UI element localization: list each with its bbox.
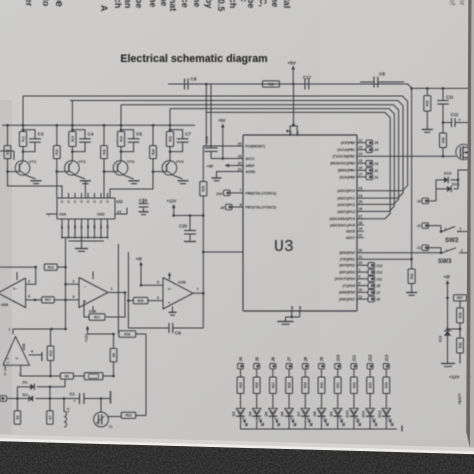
svg-text:PB7(XTAL2/TOSC2): PB7(XTAL2/TOSC2): [246, 205, 277, 209]
svg-text:(INT1)PD3: (INT1)PD3: [339, 271, 355, 275]
svg-text:VCC: VCC: [290, 131, 292, 136]
svg-text:18: 18: [238, 154, 242, 158]
switch SW3: [440, 248, 442, 253]
wire D7 to bus: [304, 416, 306, 429]
resistor R37: [454, 295, 467, 301]
svg-text:(AIN1)PD7: (AIN1)PD7: [339, 298, 355, 302]
svg-text:R25: R25: [239, 382, 243, 388]
svg-text:J11: J11: [352, 354, 357, 361]
svg-text:D15: D15: [452, 182, 460, 187]
svg-text:ADC6: ADC6: [346, 230, 355, 234]
wire J10 to resistor: [337, 369, 339, 377]
svg-text:he: he: [148, 0, 158, 7]
svg-text:R14: R14: [48, 265, 54, 269]
svg-text:AREF: AREF: [246, 164, 255, 168]
wire drop to rail ch2: [71, 101, 73, 126]
svg-text:C9: C9: [191, 77, 197, 82]
resistor R12 base: [7, 125, 9, 145]
connector J13: [357, 264, 368, 266]
paper bottom edge highlight: [0, 435, 474, 453]
resistor R29: [302, 377, 309, 394]
connector J4: [238, 364, 244, 369]
capacitor C7: [170, 130, 183, 139]
capacitor C3: [23, 130, 35, 139]
wire reset to rail: [205, 84, 207, 146]
channel supply rail: [2, 124, 195, 126]
svg-text:3: 3: [28, 295, 30, 299]
svg-text:+: +: [168, 301, 170, 305]
MCU U3 box: [243, 135, 357, 311]
svg-text:or: or: [458, 0, 467, 6]
emitter ground ch3: [125, 176, 134, 179]
resistor R7: [47, 411, 53, 425]
LED D6: [285, 409, 293, 416]
svg-text:he: he: [53, 0, 65, 7]
svg-text:J7: J7: [376, 291, 380, 295]
resistor R33: [367, 377, 374, 394]
svg-text:14: 14: [359, 152, 363, 156]
svg-text:AVCC: AVCC: [246, 157, 256, 161]
inductor L1: [63, 399, 65, 412]
svg-text:J9: J9: [220, 205, 225, 210]
wire R16 down to R13: [145, 334, 147, 416]
svg-text:3: 3: [72, 295, 74, 299]
LED D12: [382, 409, 390, 416]
svg-text:+5f: +5f: [444, 275, 451, 280]
svg-text:R19: R19: [119, 136, 123, 142]
svg-text:T1: T1: [109, 425, 113, 429]
connector J6: [270, 364, 276, 369]
svg-text:R2: R2: [65, 374, 69, 378]
svg-text:J1: J1: [417, 246, 421, 250]
resistor R39: [459, 301, 461, 308]
svg-text:C7: C7: [185, 132, 191, 137]
svg-text:6: 6: [157, 296, 159, 300]
svg-text:3Y: 3Y: [80, 225, 84, 228]
svg-text:ce: ce: [180, 0, 190, 8]
wire drop to rail ch1: [22, 96, 24, 125]
svg-text:R15: R15: [71, 136, 75, 142]
ground under R22: [406, 292, 417, 294]
resistor R25: [200, 182, 207, 197]
svg-text:7: 7: [197, 288, 199, 292]
wire drop to rail ch4: [169, 109, 171, 126]
svg-text:22: 22: [359, 234, 363, 238]
wire node to U3 edge: [203, 251, 243, 253]
svg-text:D2: D2: [23, 392, 29, 397]
svg-text:4: 4: [31, 349, 33, 353]
svg-text:3Z: 3Z: [86, 225, 90, 228]
svg-text:VT4: VT4: [176, 159, 184, 164]
connector J5: [254, 364, 260, 369]
svg-text:R24: R24: [151, 149, 155, 155]
resistor R16: [119, 331, 136, 337]
svg-text:2Z: 2Z: [73, 225, 77, 228]
svg-text:(INT0)PD2: (INT0)PD2: [339, 264, 355, 268]
feedback loop wire: [106, 293, 125, 318]
surface beyond right paper edge: [470, 0, 474, 452]
svg-text:(OC1A)PB1: (OC1A)PB1: [337, 148, 355, 152]
svg-text:16: 16: [359, 166, 363, 170]
svg-text:1: 1: [111, 287, 113, 291]
svg-text:+5V: +5V: [288, 61, 297, 66]
paper shadow left edge: [0, 100, 12, 440]
MOSFET Q1: [456, 144, 471, 159]
svg-text:2Y: 2Y: [60, 225, 64, 228]
transistor VT2: [65, 161, 80, 176]
svg-text:5: 5: [157, 280, 159, 284]
svg-text:C4: C4: [88, 132, 94, 137]
resistor R32: [351, 377, 358, 394]
svg-text:1Y: 1Y: [99, 225, 103, 228]
wire D8 to bus: [321, 416, 323, 429]
resistor R27: [270, 377, 277, 394]
wire J12 to resistor: [369, 369, 371, 377]
svg-text:J3: J3: [417, 199, 421, 203]
svg-text:VT3: VT3: [127, 159, 135, 164]
svg-text:C11: C11: [446, 95, 454, 100]
svg-text:J8: J8: [376, 284, 380, 288]
svg-text:be: be: [246, 0, 256, 8]
svg-text:+12V: +12V: [85, 333, 89, 342]
LED D10: [350, 409, 358, 416]
svg-text:J10: J10: [335, 354, 340, 362]
svg-text:V−: V−: [168, 287, 172, 291]
wire +12V to R16 row: [88, 333, 114, 335]
svg-text:U2: U2: [117, 199, 123, 205]
signal bus line channel 3: [121, 105, 399, 205]
svg-text:(MISO)PB4: (MISO)PB4: [338, 169, 355, 173]
svg-text:J6: J6: [271, 356, 276, 361]
resistor R30: [318, 377, 325, 394]
LED D9: [334, 409, 342, 416]
wire AVCC: [211, 158, 243, 160]
MOSFET drain wire: [469, 88, 471, 147]
svg-text:+: +: [7, 361, 9, 365]
svg-text:7: 7: [9, 328, 11, 332]
svg-text:VT1: VT1: [29, 159, 37, 164]
LED D11: [366, 409, 374, 416]
svg-text:D3: D3: [232, 412, 236, 417]
wire to U1B pin5: [141, 284, 163, 286]
vertical net wire mid-left B: [127, 252, 129, 328]
svg-text:3C: 3C: [99, 200, 103, 203]
resistor R20: [133, 297, 148, 303]
resistor R2: [60, 373, 73, 379]
svg-text:J1: J1: [374, 175, 378, 179]
wire left edge input: [0, 150, 14, 152]
svg-text:ne: ne: [159, 0, 169, 6]
svg-text:J4: J4: [238, 356, 243, 361]
connector J7: [357, 291, 368, 293]
svg-text:R16: R16: [124, 332, 130, 336]
switch SW2: [440, 226, 442, 232]
svg-text:15: 15: [359, 159, 363, 163]
svg-text:+5V: +5V: [218, 118, 226, 123]
signal bus line channel 1: [23, 96, 408, 191]
transistor VT3: [113, 161, 128, 176]
svg-text:V−: V−: [16, 357, 20, 361]
connector J9: [319, 364, 325, 369]
svg-text:D5: D5: [265, 412, 269, 417]
signal bus line 5: [206, 112, 390, 218]
svg-text:5: 5: [4, 373, 6, 377]
svg-text:J10: J10: [216, 191, 223, 196]
svg-text:J7: J7: [287, 356, 292, 361]
svg-text:D7: D7: [297, 412, 301, 417]
resistor R13: [108, 416, 122, 418]
resistor R19 collector: [120, 125, 122, 131]
svg-text:C1: C1: [70, 391, 76, 396]
svg-text:he: he: [270, 0, 280, 7]
wire J7 to resistor: [288, 369, 290, 377]
connector J13: [383, 364, 389, 369]
svg-text:er: er: [24, 0, 34, 7]
resistor R22: [411, 259, 413, 269]
svg-text:C6: C6: [175, 331, 181, 336]
connector J1 right of U3: [366, 174, 373, 180]
svg-text:R29: R29: [304, 382, 308, 388]
svg-text:PC6(RESET): PC6(RESET): [246, 144, 266, 148]
svg-text:21: 21: [238, 167, 242, 171]
svg-text:J13: J13: [376, 264, 382, 268]
svg-text:R16: R16: [55, 149, 59, 155]
svg-text:D13: D13: [439, 336, 443, 342]
svg-text:J6: J6: [376, 298, 380, 302]
resistor R17: [42, 297, 55, 303]
wire VT2 base to U2: [56, 172, 58, 198]
capacitor C10: [210, 84, 212, 148]
svg-text:SW3: SW3: [438, 258, 452, 265]
svg-text:(SCK)PB5: (SCK)PB5: [339, 175, 355, 179]
svg-text:D11: D11: [362, 411, 366, 418]
svg-text:he: he: [192, 0, 202, 7]
svg-text:R33: R33: [369, 382, 373, 388]
svg-text:R38: R38: [458, 342, 462, 348]
svg-text:C17: C17: [303, 75, 312, 80]
dark table surface bottom: [0, 441, 474, 474]
svg-text:13: 13: [359, 146, 363, 150]
resistor R26: [253, 377, 260, 394]
svg-text:of: of: [448, 0, 457, 6]
svg-text:C8: C8: [379, 72, 385, 77]
svg-text:(ADC4/SDA)PC4: (ADC4/SDA)PC4: [330, 217, 356, 221]
svg-text:R20: R20: [102, 149, 106, 155]
wire PB2 long: [366, 155, 443, 157]
emitter ground ch4: [174, 176, 183, 179]
svg-text:tal: tal: [282, 0, 292, 8]
svg-text:19: 19: [359, 227, 363, 231]
svg-text:D9: D9: [329, 412, 333, 417]
svg-text:ch: ch: [113, 0, 123, 8]
emitter ground ch1: [27, 176, 36, 179]
svg-text:R12: R12: [6, 149, 10, 155]
svg-text:R26: R26: [268, 82, 274, 86]
+5V rail wire: [168, 84, 412, 259]
connector J5: [366, 140, 373, 146]
svg-text:D10: D10: [346, 411, 350, 418]
svg-text:(ADC3)PC3: (ADC3)PC3: [337, 210, 355, 214]
svg-text:R20: R20: [138, 299, 144, 303]
capacitor C6: [202, 293, 204, 328]
svg-text:C10: C10: [205, 137, 209, 144]
U3 VCC bracket: [293, 84, 295, 125]
svg-text:R28: R28: [288, 382, 292, 388]
svg-text:7: 7: [240, 189, 242, 193]
svg-text:R22: R22: [410, 273, 414, 279]
wire J9 to resistor: [321, 369, 323, 377]
svg-text:D8: D8: [313, 412, 317, 417]
svg-text:+5F: +5F: [207, 163, 215, 168]
connector J12: [367, 364, 373, 369]
svg-text:0.5: 0.5: [216, 0, 226, 11]
wire R25 node down: [202, 216, 204, 253]
svg-text:11: 11: [359, 295, 363, 299]
svg-text:Electrical schematic diagram: Electrical schematic diagram: [120, 53, 267, 65]
svg-text:be: be: [134, 0, 144, 8]
connector J7: [286, 364, 292, 369]
connector J12: [357, 271, 368, 273]
resistor R9: [110, 348, 117, 362]
svg-text:J5: J5: [254, 356, 259, 361]
wire D12 to bus: [385, 416, 387, 429]
wire VT2 emitter branch: [84, 181, 86, 198]
svg-text:30: 30: [359, 249, 363, 253]
capacitor C8: [373, 77, 375, 88]
svg-text:R30: R30: [320, 382, 324, 388]
svg-text:R23: R23: [168, 136, 172, 142]
svg-text:2: 2: [28, 279, 30, 283]
svg-text:R10: R10: [49, 350, 53, 356]
svg-text:L1: L1: [66, 408, 70, 412]
vertical net wire: [65, 238, 67, 268]
svg-text:R31: R31: [336, 382, 340, 388]
svg-text:8: 8: [240, 203, 242, 207]
connector J10: [335, 364, 341, 369]
svg-text:J2: J2: [374, 169, 378, 173]
rail branch to right section: [412, 87, 468, 89]
svg-text:17: 17: [359, 173, 363, 177]
wire D10 to bus: [353, 416, 355, 429]
resistor R26: [263, 81, 280, 87]
ground under R35: [422, 129, 433, 131]
svg-text:A: A: [99, 5, 109, 12]
svg-text:+: +: [74, 399, 76, 403]
svg-text:D1: D1: [23, 379, 29, 384]
wire J11 to resistor: [353, 369, 355, 377]
wire D9 to bus: [337, 416, 339, 429]
resistor R31: [334, 377, 341, 394]
svg-text:20: 20: [238, 161, 242, 165]
resistor R16 base: [56, 125, 58, 145]
resistor R20 base: [103, 125, 105, 145]
resistor R10: [50, 329, 52, 346]
svg-text:R39: R39: [458, 312, 462, 318]
capacitor C17: [304, 79, 306, 90]
svg-text:1: 1: [359, 268, 361, 272]
resistor R15 collector: [71, 125, 73, 131]
svg-text:(XCK/T0)PD4: (XCK/T0)PD4: [335, 277, 355, 281]
U2 ground: [81, 238, 83, 249]
svg-text:31: 31: [359, 255, 363, 259]
resistor R23 collector: [169, 125, 171, 131]
LED D8: [317, 409, 325, 416]
svg-text:29: 29: [238, 142, 242, 146]
terminal bar: [110, 391, 112, 404]
wire drop to rail ch3: [120, 105, 122, 126]
svg-text:C12: C12: [451, 112, 459, 117]
connector J6: [357, 298, 368, 300]
resistor R35: [424, 96, 431, 112]
svg-text:AZ: AZ: [106, 225, 110, 229]
svg-text:J13: J13: [384, 354, 389, 362]
svg-text:1C: 1C: [73, 200, 77, 203]
svg-text:25: 25: [359, 200, 363, 204]
svg-text:C5: C5: [136, 132, 142, 137]
transistor VT1: [15, 161, 30, 176]
svg-text:SW2: SW2: [445, 237, 459, 244]
emitter ground ch2: [76, 176, 85, 179]
wire D11 to bus: [369, 416, 371, 429]
resistor R25: [237, 377, 244, 394]
svg-text:(T1/OC1B)PB2: (T1/OC1B)PB2: [332, 155, 355, 159]
dark surface speckle texture: [0, 441, 474, 474]
microphone T1: [94, 412, 109, 427]
wire J4 to resistor: [240, 369, 242, 377]
resistor R38: [459, 329, 461, 338]
capacitor C9: [168, 83, 181, 85]
MOSFET gate wire: [443, 155, 456, 157]
wire PD0 to switches: [357, 252, 441, 254]
svg-text:ch: ch: [228, 0, 238, 8]
LED D4: [253, 409, 261, 416]
ground right column: [441, 363, 455, 365]
svg-text:GND: GND: [299, 306, 302, 312]
connector J4: [366, 147, 373, 153]
resistor R36: [442, 123, 444, 134]
wire PD1 to R22: [357, 258, 412, 260]
svg-text:R25: R25: [202, 186, 206, 192]
reset pull-up wire: [202, 146, 204, 182]
LED D7: [301, 409, 309, 416]
svg-text:(ADC5/SCL)PC5: (ADC5/SCL)PC5: [330, 223, 355, 227]
svg-text:D14: D14: [444, 171, 452, 176]
svg-text:AY: AY: [67, 225, 71, 229]
LED D5: [269, 409, 277, 416]
svg-text:R36: R36: [441, 137, 445, 143]
op-amp U1B: [163, 278, 193, 310]
wire J6 to resistor: [272, 369, 274, 377]
svg-text:R27: R27: [271, 382, 275, 388]
svg-text:U1B: U1B: [178, 281, 186, 285]
svg-text:J12: J12: [376, 271, 382, 275]
svg-text:+12V: +12V: [167, 199, 177, 204]
wire diodes to J3 net: [435, 180, 437, 201]
svg-text:to: to: [41, 0, 51, 7]
svg-text:1Z: 1Z: [93, 225, 97, 228]
U2 output bus wire second: [69, 240, 105, 242]
svg-text:V+: V+: [6, 357, 10, 361]
svg-text:32: 32: [359, 261, 363, 265]
op-amp U5B: [3, 336, 30, 365]
svg-text:GND: GND: [291, 306, 294, 312]
svg-text:+5f: +5f: [136, 257, 143, 262]
svg-text:ADC7: ADC7: [346, 236, 355, 240]
svg-text:R6: R6: [16, 415, 20, 419]
svg-text:(TXD)PD1: (TXD)PD1: [340, 258, 355, 262]
svg-text:R17: R17: [45, 298, 51, 302]
transistor VT4: [162, 161, 177, 176]
